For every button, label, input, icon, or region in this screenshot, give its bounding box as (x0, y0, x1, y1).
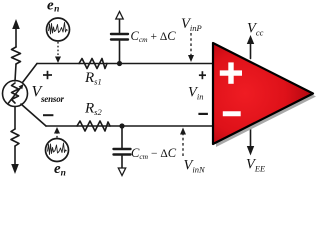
noise waveform bottom (48, 143, 67, 155)
junction dot top (117, 61, 122, 66)
capacitor Ccm-dC lead lower (121, 156, 123, 168)
noise source en bottom circle (46, 139, 69, 162)
capacitor Ccm+dC plates (111, 34, 128, 40)
wire diagonal sensor to bottom rail (21, 104, 46, 126)
label minus input (198, 113, 208, 115)
wire top rail (37, 63, 213, 65)
VEE supply lead (250, 123, 252, 148)
svg-text:Ccm + ΔC: Ccm + ΔC (131, 29, 177, 44)
noise waveform top (49, 23, 68, 35)
Vcc supply lead (250, 40, 252, 59)
dashed arrow VinN (182, 133, 184, 156)
open arrow bottom of Ccm-dC (118, 168, 125, 176)
capacitor Ccm-dC lead upper (121, 126, 123, 148)
svg-text:sensor: sensor (40, 94, 65, 104)
junction dot bottom (119, 123, 124, 128)
arrow down bottom-left filled head (11, 164, 19, 174)
dashed arrow en top to wire (57, 42, 59, 58)
wire to bottom arrow (14, 146, 16, 165)
wire below sensor to resistor (11, 129, 19, 146)
label plus input (199, 71, 206, 79)
resistor upper-left vertical zigzag (12, 47, 21, 64)
wire diagonal sensor to top rail (23, 64, 38, 83)
op-amp white minus (223, 111, 241, 116)
op-amp white plus (220, 62, 242, 83)
wire bottom rail (46, 125, 213, 127)
sensor arrow head (19, 84, 24, 89)
label minus near sensor (43, 114, 53, 116)
label plus near sensor (43, 71, 52, 79)
capacitor Ccm+dC lead lower (119, 41, 121, 64)
resistor Rs2 zigzag (77, 121, 110, 131)
wire from upper resistor to sensor (15, 64, 16, 81)
dashed arrow VinP (190, 33, 192, 56)
sensor internal zigzag (12, 83, 19, 103)
op-amp U1 red triangle (213, 43, 313, 144)
sensor arrow (9, 87, 22, 104)
arrow up top-left filled head (12, 19, 20, 29)
VEE arrow head (247, 146, 254, 156)
op-amp shadow (216, 46, 316, 147)
capacitor Ccm+dC lead upper (119, 19, 121, 33)
open arrow top of Ccm+dC (116, 12, 123, 20)
wire below sensor (14, 107, 16, 130)
sensor Vsensor circle (3, 81, 28, 107)
svg-text:Ccm − ΔC: Ccm − ΔC (131, 146, 177, 161)
wire top rail arrow shaft (15, 27, 17, 47)
dashed arrow en bottom to wire (56, 132, 58, 138)
Vcc arrow head (247, 35, 254, 44)
resistor Rs1 zigzag (79, 59, 107, 69)
capacitor Ccm-dC plates (114, 149, 131, 155)
noise source en top circle (47, 18, 70, 41)
